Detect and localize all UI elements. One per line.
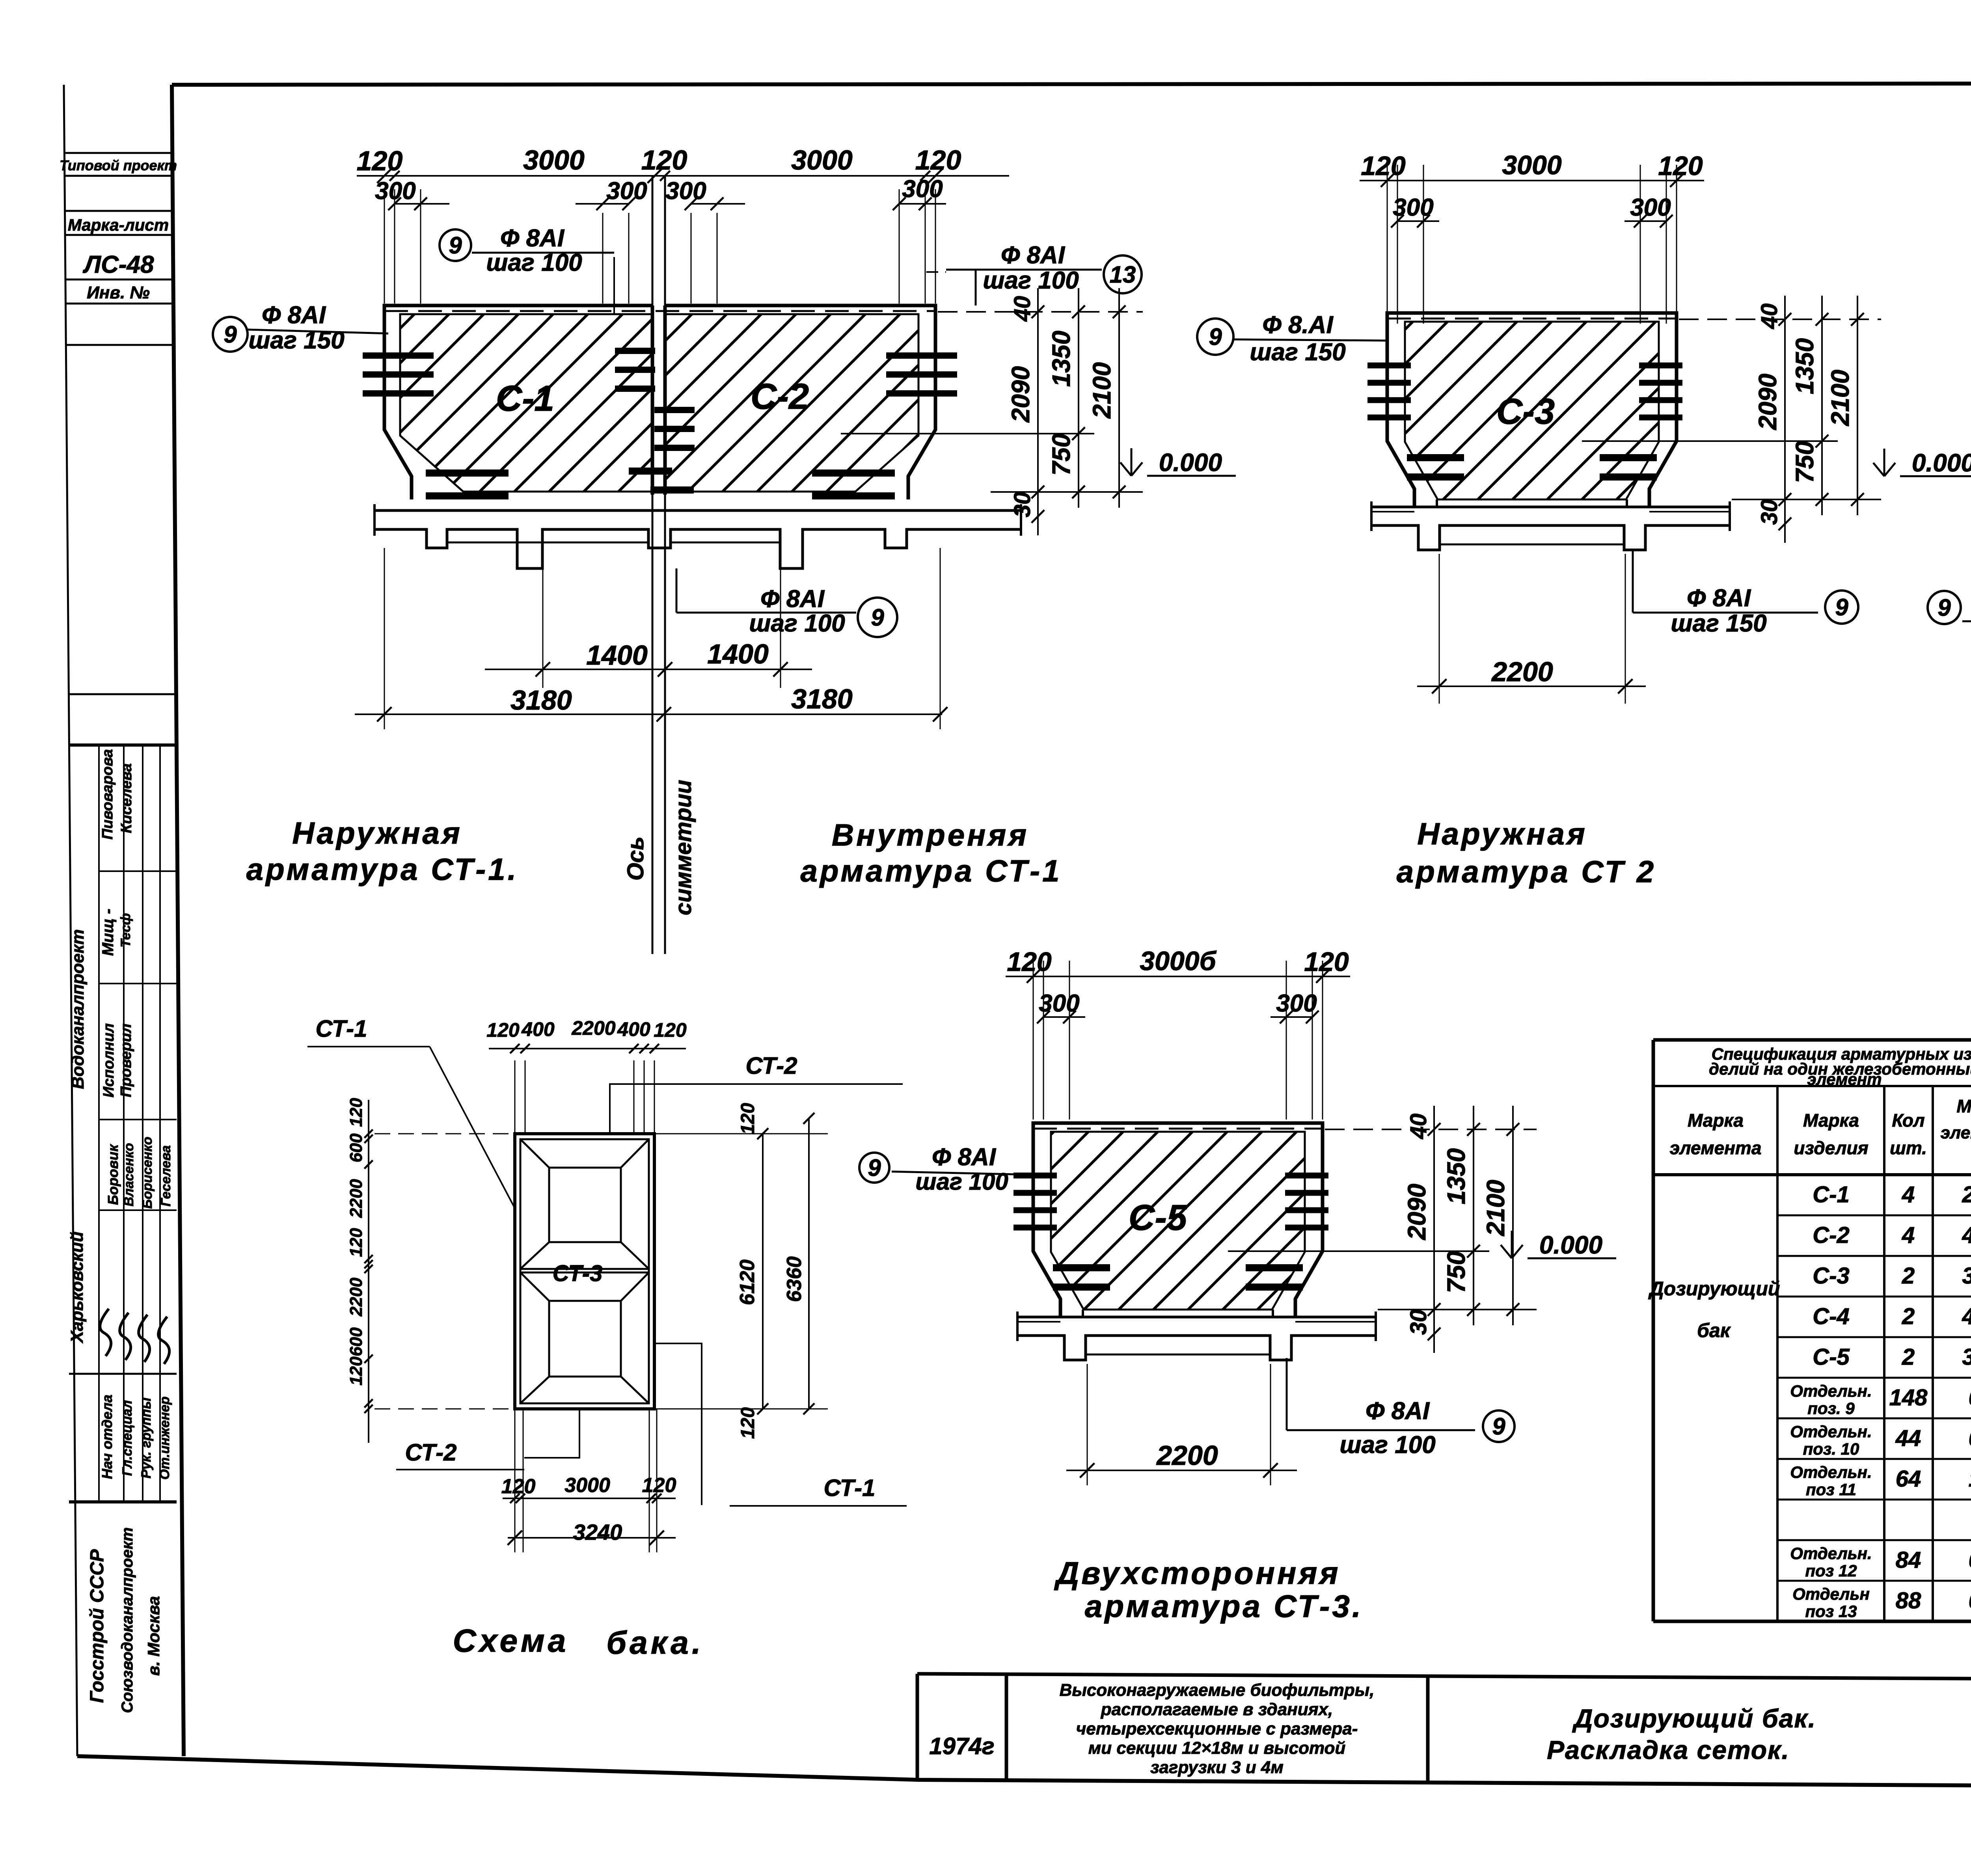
svg-text:44,2: 44,2 [1962, 1304, 1971, 1329]
svg-text:Геселева: Геселева [158, 1145, 173, 1206]
svg-text:1350: 1350 [1790, 338, 1819, 394]
svg-text:бака.: бака. [606, 1625, 704, 1661]
svg-text:Марка: Марка [1688, 1110, 1744, 1131]
svg-text:загрузки 3 и 4м: загрузки 3 и 4м [1150, 1758, 1284, 1777]
svg-text:С-1: С-1 [1813, 1182, 1849, 1207]
svg-text:0.000: 0.000 [1912, 449, 1971, 477]
svg-text:120: 120 [1304, 947, 1349, 977]
svg-text:3000: 3000 [523, 145, 585, 175]
svg-text:120: 120 [738, 1407, 758, 1439]
svg-text:600: 600 [347, 1133, 366, 1162]
svg-text:поз 12: поз 12 [1805, 1561, 1857, 1580]
svg-text:изделия: изделия [1794, 1138, 1868, 1158]
svg-text:120: 120 [347, 1356, 366, 1386]
svg-text:2090: 2090 [1753, 374, 1782, 430]
svg-text:Рук. группы: Рук. группы [139, 1397, 154, 1478]
svg-text:13: 13 [1110, 261, 1136, 288]
svg-text:9: 9 [449, 232, 462, 259]
svg-text:четырехсекционные с размера-: четырехсекционные с размера- [1076, 1719, 1358, 1738]
svg-text:Тесф: Тесф [118, 913, 133, 947]
svg-text:3000: 3000 [564, 1474, 610, 1497]
svg-text:шт.: шт. [1890, 1138, 1927, 1158]
svg-text:шаг 100: шаг 100 [749, 610, 845, 637]
svg-text:0,4: 0,4 [1969, 1588, 1971, 1613]
svg-text:2: 2 [1902, 1304, 1915, 1329]
svg-text:СТ-2: СТ-2 [745, 1053, 797, 1079]
svg-text:750: 750 [1790, 441, 1819, 483]
svg-text:300: 300 [375, 177, 415, 205]
svg-text:300: 300 [902, 175, 943, 203]
svg-text:Ось: Ось [623, 836, 648, 881]
svg-text:СТ-1: СТ-1 [315, 1015, 367, 1042]
svg-text:0.000: 0.000 [1539, 1231, 1602, 1259]
svg-text:40: 40 [1757, 304, 1782, 330]
svg-text:120: 120 [1361, 151, 1406, 181]
svg-text:1974г: 1974г [929, 1733, 995, 1759]
svg-text:2200: 2200 [347, 1278, 366, 1317]
svg-text:Водоканалпроект: Водоканалпроект [68, 929, 88, 1089]
svg-text:9: 9 [1209, 324, 1222, 350]
svg-text:40: 40 [1010, 296, 1035, 322]
svg-text:ЛС-48: ЛС-48 [83, 251, 154, 278]
svg-text:400: 400 [617, 1018, 650, 1040]
svg-text:поз 13: поз 13 [1805, 1602, 1857, 1621]
svg-text:1400: 1400 [707, 639, 769, 669]
svg-text:88: 88 [1896, 1588, 1921, 1613]
svg-text:шаг 150: шаг 150 [1671, 610, 1766, 637]
svg-text:148: 148 [1889, 1385, 1928, 1410]
svg-text:Ф 8АI: Ф 8АI [1366, 1397, 1430, 1425]
svg-text:ми секции 12×18м и высотой: ми секции 12×18м и высотой [1088, 1738, 1346, 1758]
svg-text:3000б: 3000б [1140, 946, 1217, 976]
svg-text:шаг 150: шаг 150 [1250, 339, 1345, 366]
svg-text:3000: 3000 [1502, 150, 1561, 180]
svg-text:750: 750 [1047, 434, 1075, 476]
svg-text:Борисенко: Борисенко [140, 1137, 155, 1209]
svg-text:64: 64 [1896, 1466, 1921, 1492]
svg-text:0,1: 0,1 [1969, 1547, 1971, 1573]
svg-text:Раскладка сеток.: Раскладка сеток. [1547, 1735, 1790, 1764]
svg-text:400: 400 [521, 1018, 555, 1040]
svg-text:0,4: 0,4 [1969, 1385, 1971, 1410]
svg-text:120: 120 [486, 1019, 520, 1041]
svg-text:2: 2 [1902, 1263, 1915, 1289]
svg-text:30: 30 [1757, 499, 1782, 525]
svg-text:Ф 8АI: Ф 8АI [932, 1144, 997, 1171]
svg-text:шаг 100: шаг 100 [915, 1168, 1008, 1195]
svg-text:120: 120 [501, 1475, 536, 1498]
svg-text:0,3: 0,3 [1969, 1425, 1971, 1451]
svg-text:арматура СТ-3.: арматура СТ-3. [1085, 1589, 1363, 1624]
svg-text:Гл.специал: Гл.специал [120, 1400, 135, 1476]
svg-text:Двухсторонняя: Двухсторонняя [1054, 1556, 1340, 1591]
svg-text:300: 300 [606, 177, 647, 205]
svg-text:300: 300 [1393, 194, 1433, 221]
svg-text:Госстрой СССР: Госстрой СССР [87, 1549, 108, 1703]
svg-text:1350: 1350 [1442, 1148, 1470, 1204]
svg-text:шаг 100: шаг 100 [1339, 1431, 1435, 1459]
svg-text:Наружная: Наружная [292, 816, 462, 850]
svg-text:Проверил: Проверил [118, 1024, 134, 1097]
svg-text:2100: 2100 [1088, 362, 1116, 419]
svg-text:СТ-3: СТ-3 [553, 1261, 603, 1286]
svg-text:Отдельн.: Отдельн. [1790, 1544, 1872, 1563]
svg-text:Марка-лист: Марка-лист [68, 216, 169, 234]
svg-text:84: 84 [1896, 1547, 1921, 1573]
svg-text:Отдельн: Отдельн [1792, 1585, 1870, 1603]
svg-text:в. Москва: в. Москва [144, 1596, 163, 1676]
svg-text:120: 120 [1658, 151, 1703, 181]
svg-text:Ф 8АI: Ф 8АI [262, 302, 326, 329]
svg-text:Ф 8АI: Ф 8АI [500, 225, 565, 252]
svg-text:120: 120 [347, 1228, 366, 1257]
svg-text:1350: 1350 [1047, 331, 1075, 387]
svg-text:9: 9 [1937, 594, 1951, 621]
svg-text:Высоконагружаемые биофильтры,: Высоконагружаемые биофильтры, [1060, 1680, 1375, 1700]
svg-text:арматура СТ-1.: арматура СТ-1. [246, 852, 519, 887]
svg-text:1,1: 1,1 [1969, 1466, 1971, 1492]
svg-text:2090: 2090 [1403, 1184, 1431, 1240]
svg-text:2100: 2100 [1481, 1180, 1510, 1236]
svg-text:2200: 2200 [347, 1179, 366, 1218]
svg-text:Мищ -: Мищ - [99, 909, 117, 956]
svg-text:6120: 6120 [736, 1259, 759, 1305]
svg-text:Отдельн.: Отдельн. [1790, 1422, 1872, 1441]
svg-text:С-2: С-2 [1813, 1222, 1849, 1248]
svg-text:2200: 2200 [1491, 656, 1553, 687]
svg-text:750: 750 [1442, 1251, 1470, 1293]
svg-text:С-2: С-2 [751, 376, 809, 417]
svg-text:арматура СТ 2: арматура СТ 2 [1397, 854, 1656, 889]
svg-text:Нач отдела: Нач отдела [99, 1395, 115, 1479]
svg-text:3180: 3180 [791, 684, 853, 714]
svg-text:120: 120 [641, 145, 687, 175]
svg-text:С-5: С-5 [1813, 1344, 1850, 1370]
svg-text:9: 9 [224, 321, 237, 348]
svg-text:120: 120 [347, 1098, 366, 1127]
svg-text:Дозирующий: Дозирующий [1648, 1278, 1780, 1300]
svg-text:Отдельн.: Отдельн. [1790, 1382, 1872, 1400]
svg-text:Пивоварова: Пивоварова [99, 749, 116, 839]
svg-text:С-4: С-4 [1813, 1304, 1849, 1329]
svg-text:Наружная: Наружная [1417, 816, 1587, 851]
svg-text:Исполнил: Исполнил [101, 1023, 117, 1097]
svg-text:Схема: Схема [453, 1623, 569, 1659]
svg-text:0.000: 0.000 [1159, 448, 1222, 477]
svg-text:9: 9 [871, 604, 884, 631]
svg-text:Харьковский: Харьковский [67, 1231, 87, 1344]
svg-text:600: 600 [347, 1327, 366, 1356]
svg-text:Ф 8АI: Ф 8АI [760, 585, 825, 613]
svg-text:От.инженер: От.инженер [157, 1396, 172, 1479]
svg-text:Ф 8АI: Ф 8АI [1687, 585, 1751, 612]
svg-text:Ф 8АI: Ф 8АI [1001, 242, 1066, 269]
svg-text:Марка: Марка [1803, 1110, 1859, 1131]
svg-text:СТ-2: СТ-2 [405, 1439, 456, 1466]
svg-text:3000: 3000 [791, 145, 853, 175]
svg-text:элемента: элемента [1670, 1138, 1762, 1158]
svg-text:Ф 8.АI: Ф 8.АI [1262, 311, 1334, 339]
svg-text:120: 120 [357, 145, 403, 176]
svg-text:4: 4 [1902, 1222, 1915, 1248]
svg-text:6360: 6360 [783, 1256, 806, 1302]
svg-text:С-3: С-3 [1496, 391, 1555, 432]
svg-text:бак: бак [1697, 1319, 1731, 1341]
svg-text:шаг 100: шаг 100 [486, 249, 582, 276]
svg-text:30: 30 [1406, 1310, 1431, 1335]
svg-text:2090: 2090 [1006, 366, 1035, 423]
svg-text:арматура СТ-1: арматура СТ-1 [801, 853, 1062, 888]
svg-text:Инв. №: Инв. № [87, 283, 150, 302]
svg-text:Союзводоканалпроект: Союзводоканалпроект [119, 1527, 136, 1713]
svg-text:2200: 2200 [571, 1017, 615, 1039]
svg-text:40: 40 [1406, 1114, 1431, 1140]
svg-text:3180: 3180 [510, 685, 572, 715]
svg-text:Киселева: Киселева [118, 763, 135, 833]
svg-text:элемент: элемент [1807, 1070, 1882, 1088]
svg-text:Боровик: Боровик [105, 1144, 121, 1205]
svg-text:2100: 2100 [1826, 370, 1854, 426]
svg-text:С-5: С-5 [1129, 1198, 1188, 1238]
svg-text:29,3: 29,3 [1962, 1182, 1971, 1207]
svg-text:120: 120 [642, 1474, 676, 1497]
svg-text:2200: 2200 [1156, 1440, 1218, 1471]
svg-text:С-1: С-1 [496, 378, 554, 419]
svg-text:37,2: 37,2 [1962, 1263, 1971, 1289]
svg-text:поз 11: поз 11 [1806, 1480, 1856, 1499]
svg-text:9: 9 [1835, 594, 1848, 620]
svg-text:Масса: Масса [1956, 1096, 1971, 1116]
svg-text:поз. 10: поз. 10 [1803, 1440, 1859, 1458]
svg-text:300: 300 [1630, 194, 1671, 221]
svg-text:1400: 1400 [586, 640, 648, 671]
svg-text:шаг 100: шаг 100 [983, 267, 1079, 294]
svg-text:шаг 150: шаг 150 [248, 327, 344, 354]
svg-text:300: 300 [1276, 990, 1317, 1017]
svg-text:С-3: С-3 [1813, 1263, 1849, 1289]
svg-text:2: 2 [1902, 1344, 1915, 1370]
svg-text:Отдельн.: Отдельн. [1790, 1463, 1872, 1481]
svg-text:9: 9 [1492, 1413, 1505, 1440]
svg-text:3240: 3240 [573, 1520, 622, 1544]
svg-text:поз. 9: поз. 9 [1807, 1399, 1855, 1418]
svg-text:38,8: 38,8 [1962, 1344, 1971, 1370]
svg-text:300: 300 [665, 177, 706, 205]
svg-text:4: 4 [1902, 1182, 1915, 1207]
svg-text:располагаемые в зданиях,: располагаемые в зданиях, [1101, 1700, 1333, 1719]
svg-text:Дозирующий бак.: Дозирующий бак. [1572, 1704, 1816, 1733]
svg-text:элемента: элемента [1941, 1123, 1971, 1142]
svg-text:120: 120 [1007, 947, 1052, 977]
svg-text:300: 300 [1039, 990, 1079, 1017]
svg-text:49,8: 49,8 [1962, 1222, 1971, 1248]
svg-text:120: 120 [654, 1019, 687, 1041]
svg-text:Власенко: Власенко [121, 1143, 136, 1207]
svg-text:СТ-1: СТ-1 [823, 1475, 875, 1501]
svg-text:120: 120 [738, 1103, 758, 1135]
svg-text:Кол: Кол [1892, 1110, 1924, 1131]
svg-text:30: 30 [1010, 492, 1035, 518]
svg-text:120: 120 [915, 145, 961, 175]
svg-text:симметрии: симметрии [671, 780, 696, 915]
svg-text:Внутреняя: Внутреняя [832, 818, 1029, 852]
svg-text:9: 9 [868, 1155, 881, 1181]
svg-text:Типовой проект: Типовой проект [60, 157, 177, 173]
svg-text:44: 44 [1895, 1425, 1921, 1451]
